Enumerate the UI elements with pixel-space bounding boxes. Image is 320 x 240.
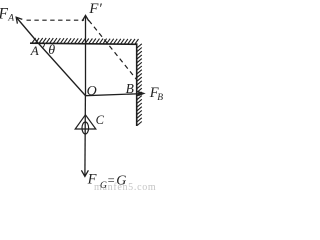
svg-text:=: = xyxy=(108,174,115,188)
svg-text:F′: F′ xyxy=(88,1,102,17)
svg-text:C: C xyxy=(96,113,105,127)
svg-text:O: O xyxy=(87,84,97,99)
svg-text:G: G xyxy=(116,174,126,189)
svg-text:B: B xyxy=(126,81,134,96)
svg-text:F: F xyxy=(87,171,97,187)
svg-text:A: A xyxy=(7,13,14,23)
svg-text:B: B xyxy=(157,93,163,103)
svg-text:A: A xyxy=(30,43,39,58)
svg-text:θ: θ xyxy=(48,43,55,58)
svg-text:F: F xyxy=(0,5,9,22)
svg-text:G: G xyxy=(100,181,107,190)
